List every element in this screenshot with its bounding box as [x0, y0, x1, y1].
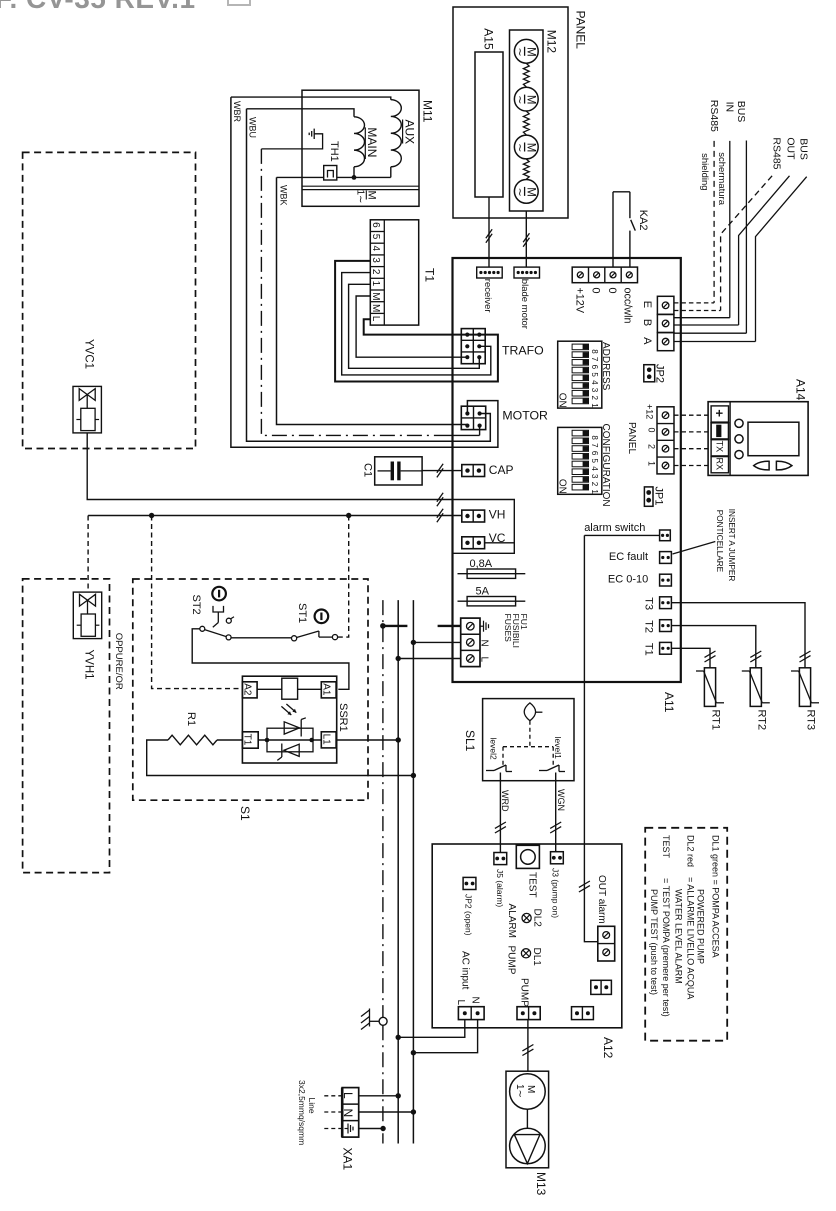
svg-text:1∼: 1∼: [514, 1084, 525, 1098]
svg-text:CAP: CAP: [489, 463, 514, 477]
svg-text:TX: TX: [714, 441, 724, 453]
svg-text:A2: A2: [242, 683, 253, 696]
svg-text:R1: R1: [185, 712, 197, 726]
svg-text:RT2: RT2: [755, 710, 767, 731]
svg-text:blade motor: blade motor: [519, 279, 530, 329]
svg-text:CONFIGURATION: CONFIGURATION: [600, 424, 611, 507]
svg-text:BUS: BUS: [798, 138, 810, 160]
svg-text:ALARM: ALARM: [506, 904, 517, 938]
svg-text:OUT alarm: OUT alarm: [596, 875, 607, 924]
svg-text:AUX: AUX: [402, 120, 416, 145]
svg-text:M11: M11: [421, 100, 435, 123]
svg-text:level2: level2: [488, 738, 498, 760]
svg-text:8: 8: [590, 435, 599, 440]
svg-text:WATER LEVEL ALARM: WATER LEVEL ALARM: [673, 889, 683, 984]
svg-text:8: 8: [590, 349, 599, 354]
svg-text:TRAFO: TRAFO: [502, 344, 544, 358]
svg-text:0: 0: [606, 288, 618, 294]
svg-text:1: 1: [590, 403, 599, 408]
svg-text:L: L: [370, 316, 381, 322]
svg-text:T1: T1: [643, 643, 655, 656]
svg-text:RT1: RT1: [710, 710, 722, 731]
svg-text:INSERT A JUMPER: INSERT A JUMPER: [727, 509, 736, 582]
svg-text:ST2: ST2: [190, 595, 202, 615]
svg-text:1: 1: [590, 489, 599, 494]
svg-text:OPPURE/OR: OPPURE/OR: [113, 633, 124, 690]
svg-text:ON: ON: [556, 393, 567, 408]
svg-text:PUMP: PUMP: [506, 946, 517, 975]
svg-text:DL1: DL1: [531, 948, 542, 967]
svg-text:Line: Line: [307, 1098, 317, 1114]
svg-text:schermatura: schermatura: [716, 152, 727, 206]
svg-text:1: 1: [370, 281, 381, 287]
svg-text:A11: A11: [662, 692, 676, 713]
svg-text:ST1: ST1: [296, 603, 308, 623]
svg-text:T3: T3: [643, 597, 655, 610]
svg-text:0: 0: [590, 288, 602, 294]
svg-text:1∼: 1∼: [355, 190, 366, 204]
svg-text:PANEL: PANEL: [574, 11, 588, 50]
svg-text:L: L: [479, 657, 490, 663]
svg-text:J3 (pump on): J3 (pump on): [551, 868, 561, 918]
svg-text:VH: VH: [489, 508, 506, 522]
svg-text:5: 5: [370, 234, 381, 240]
svg-text:WBR: WBR: [232, 101, 242, 122]
svg-text:A15: A15: [482, 28, 496, 50]
svg-text:SL1: SL1: [463, 730, 477, 752]
svg-text:PUMP TEST (push to test): PUMP TEST (push to test): [649, 889, 659, 995]
svg-text:L1: L1: [321, 734, 332, 746]
svg-text:RS485: RS485: [771, 137, 783, 169]
svg-text:E: E: [641, 301, 653, 308]
svg-text:∼: ∼: [514, 188, 526, 197]
svg-text:7: 7: [590, 443, 599, 448]
svg-text:L: L: [341, 1092, 355, 1099]
svg-text:level1: level1: [553, 737, 563, 759]
svg-text:3: 3: [590, 388, 599, 393]
svg-text:B: B: [641, 319, 653, 326]
svg-text:DL1 green = POMPA ACCESA: DL1 green = POMPA ACCESA: [711, 835, 721, 958]
svg-text:MOTOR: MOTOR: [502, 409, 548, 423]
svg-text:T1: T1: [242, 734, 253, 746]
svg-text:M: M: [366, 191, 378, 200]
svg-text:WBU: WBU: [248, 117, 258, 138]
svg-text:2: 2: [647, 444, 657, 449]
svg-text:occ/wln: occ/wln: [622, 288, 634, 324]
svg-text:2: 2: [370, 269, 381, 275]
svg-text:2: 2: [590, 396, 599, 401]
svg-text:+12: +12: [644, 404, 654, 419]
svg-text:EC fault: EC fault: [609, 551, 648, 563]
svg-text:3x2,5mmq/sqmm: 3x2,5mmq/sqmm: [297, 1080, 307, 1145]
svg-text:A1: A1: [321, 683, 332, 696]
svg-text:5A: 5A: [476, 586, 490, 598]
svg-text:∼: ∼: [514, 95, 526, 104]
svg-text:N: N: [479, 640, 490, 647]
svg-text:PANEL: PANEL: [626, 422, 637, 454]
svg-text:DL2 red = ALLARME LIVELLO A: DL2 red = ALLARME LIVELLO ACQUA: [685, 835, 695, 999]
svg-text:IN: IN: [724, 102, 736, 113]
svg-text:WGN: WGN: [556, 789, 566, 811]
svg-text:5: 5: [590, 459, 599, 464]
svg-text:WBK: WBK: [279, 185, 289, 206]
svg-text:RT3: RT3: [805, 710, 817, 731]
svg-text:2: 2: [590, 482, 599, 487]
svg-text:5: 5: [590, 372, 599, 377]
svg-text:∼: ∼: [514, 48, 526, 57]
svg-text:M: M: [370, 304, 381, 312]
svg-text:6: 6: [590, 451, 599, 456]
svg-text:A: A: [641, 337, 653, 345]
svg-text:L: L: [455, 1000, 466, 1006]
svg-text:0: 0: [647, 428, 657, 433]
svg-text:A12: A12: [601, 1037, 615, 1059]
svg-text:6: 6: [370, 222, 381, 228]
svg-text:YVH1: YVH1: [83, 650, 95, 680]
svg-text:M13: M13: [534, 1172, 548, 1196]
svg-text:POWERED PUMP: POWERED PUMP: [696, 889, 706, 964]
svg-text:7: 7: [590, 357, 599, 362]
svg-text:∼: ∼: [514, 143, 526, 152]
svg-text:N: N: [469, 997, 480, 1004]
svg-text:shielding: shielding: [699, 153, 710, 191]
svg-text:XA1: XA1: [341, 1148, 355, 1171]
svg-text:6: 6: [590, 365, 599, 370]
svg-text:N: N: [341, 1109, 355, 1118]
svg-text:0,8A: 0,8A: [470, 558, 493, 570]
svg-text:ADDRESS: ADDRESS: [600, 342, 611, 391]
svg-text:T1: T1: [423, 268, 437, 282]
svg-text:RS485: RS485: [708, 100, 720, 132]
svg-text:JP1: JP1: [653, 487, 665, 506]
svg-text:SSR1: SSR1: [337, 703, 349, 732]
svg-text:1: 1: [647, 461, 657, 466]
svg-text:3: 3: [590, 474, 599, 479]
svg-text:BUS: BUS: [735, 101, 747, 123]
svg-text:J5 (alarm): J5 (alarm): [495, 869, 505, 907]
svg-text:M: M: [370, 292, 381, 300]
svg-text:PONTICELLARE: PONTICELLARE: [715, 510, 724, 573]
svg-text:KA2: KA2: [637, 210, 649, 231]
svg-text:+: +: [712, 409, 727, 417]
svg-text:JP2 (open): JP2 (open): [463, 894, 473, 936]
svg-text:YVC1: YVC1: [83, 339, 95, 369]
svg-text:MAIN: MAIN: [365, 127, 379, 157]
svg-text:TH1: TH1: [328, 141, 340, 162]
svg-text:PUMP: PUMP: [518, 978, 529, 1007]
svg-text:OUT: OUT: [785, 137, 797, 160]
svg-text:RX: RX: [714, 458, 724, 471]
svg-text:3: 3: [370, 257, 381, 263]
svg-text:M: M: [525, 1085, 536, 1093]
svg-text:TEST = TEST POMPA (prem: TEST = TEST POMPA (premere per test): [661, 835, 671, 1017]
svg-text:4: 4: [370, 246, 381, 252]
svg-text:+12V: +12V: [574, 288, 586, 314]
svg-text:EC 0-10: EC 0-10: [608, 574, 648, 586]
svg-text:DL2: DL2: [531, 909, 542, 928]
svg-text:4: 4: [590, 466, 599, 471]
svg-text:JP2: JP2: [654, 364, 666, 383]
svg-text:alarm switch: alarm switch: [584, 522, 645, 534]
svg-text:M12: M12: [545, 30, 559, 54]
svg-text:WRD: WRD: [500, 790, 510, 812]
svg-text:C1: C1: [362, 463, 374, 477]
svg-text:F. CV-35 REV.1: F. CV-35 REV.1: [0, 0, 196, 14]
svg-text:AC input: AC input: [460, 951, 471, 990]
svg-text:TEST: TEST: [527, 872, 538, 898]
svg-text:receiver: receiver: [482, 279, 493, 313]
svg-text:4: 4: [590, 380, 599, 385]
svg-text:T2: T2: [643, 620, 655, 633]
svg-text:S1: S1: [238, 806, 252, 821]
svg-text:A14: A14: [794, 379, 808, 401]
svg-text:FUSES: FUSES: [503, 614, 513, 643]
svg-text:ON: ON: [556, 479, 567, 494]
